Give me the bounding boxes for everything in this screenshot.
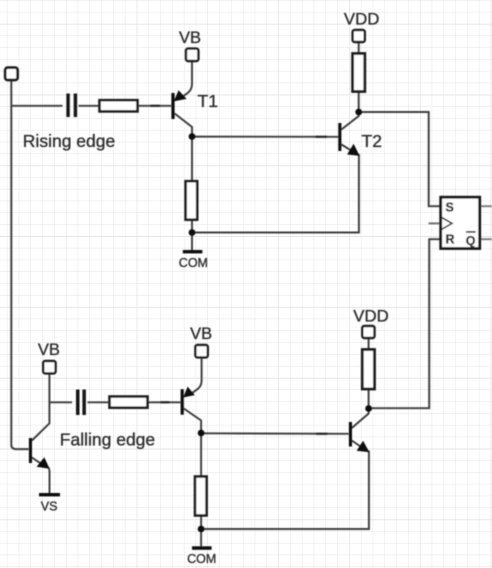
svg-text:Rising edge: Rising edge: [23, 131, 115, 151]
svg-text:VB: VB: [190, 325, 212, 343]
svg-text:VDD: VDD: [344, 9, 379, 28]
svg-text:T2: T2: [362, 131, 382, 151]
svg-text:R: R: [446, 233, 455, 247]
svg-text:VS: VS: [41, 500, 58, 514]
svg-text:VB: VB: [38, 341, 60, 359]
svg-text:T1: T1: [198, 91, 218, 111]
svg-text:Falling edge: Falling edge: [60, 429, 155, 449]
svg-text:Q: Q: [466, 234, 476, 248]
svg-text:S: S: [446, 201, 454, 215]
svg-text:COM: COM: [187, 552, 216, 566]
svg-text:COM: COM: [179, 256, 208, 270]
svg-text:VDD: VDD: [353, 306, 388, 325]
svg-text:VB: VB: [179, 29, 201, 47]
